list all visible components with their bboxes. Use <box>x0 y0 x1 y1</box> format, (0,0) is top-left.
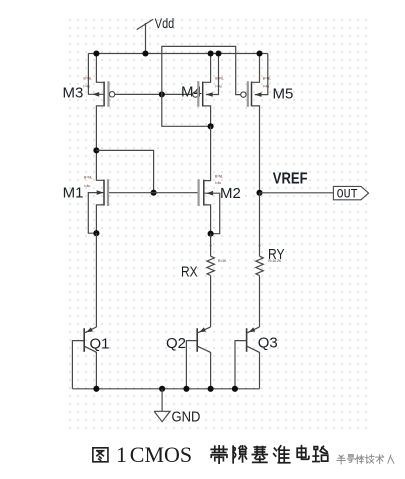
label GND <box>172 409 201 426</box>
transistor M5 drain wire <box>252 106 260 193</box>
junction Q2 base at rail <box>183 386 189 392</box>
caption character 隙 <box>233 446 246 463</box>
transistor M1 channel <box>103 180 105 206</box>
pin dot RY <box>259 245 261 247</box>
resistor RY zigzag <box>256 256 263 275</box>
transistor Q3 base bar <box>246 328 248 352</box>
transistor M2 bulk wire <box>204 191 220 234</box>
label VREF <box>273 171 308 188</box>
svg-text:RY: RY <box>268 246 285 263</box>
svg-text:Q3: Q3 <box>258 335 278 352</box>
caption character 准 <box>274 446 290 463</box>
watermark 半导体技术人 <box>337 455 394 465</box>
junction Q1 collector at rail <box>93 386 99 392</box>
transistor Q3 base wire <box>235 341 247 389</box>
transistor M3 channel <box>103 82 105 107</box>
transistor M1 drain wire <box>96 150 104 180</box>
wire Vdd rail <box>88 53 267 55</box>
wire RX to Q2 emitter <box>210 276 212 327</box>
svg-text:l=4u: l=4u <box>84 84 90 88</box>
transistor Q2 emitter <box>198 327 211 333</box>
transistor M3 gate plate <box>107 81 109 107</box>
svg-text:B=NL: B=NL <box>215 77 224 81</box>
transistor Q3 emitter <box>247 327 259 333</box>
transistor M4 source wire <box>203 54 211 83</box>
junction Q2 collector at rail <box>208 386 214 392</box>
transistor M1 bulk wire <box>88 190 104 233</box>
transistor M1 properties <box>84 176 93 189</box>
label Vdd <box>155 15 174 31</box>
transistor Q2 base bar <box>196 328 198 352</box>
junction Q3 base at rail <box>232 386 238 392</box>
resistor RX zigzag <box>207 256 214 275</box>
transistor M3 drain wire <box>96 106 104 150</box>
junction VREF tap <box>256 190 262 196</box>
transistor M5 properties <box>263 77 272 89</box>
label RX <box>181 264 198 281</box>
transistor Q2 base wire <box>186 341 197 389</box>
svg-text:R=1K: R=1K <box>218 259 227 263</box>
resistor RY property <box>268 259 282 263</box>
wire RY to Q3 emitter <box>259 276 261 327</box>
svg-text:Q2: Q2 <box>166 335 186 352</box>
junction M4 drain node <box>208 123 214 129</box>
transistor M1 source wire <box>96 205 104 233</box>
transistor M4 bulk wire <box>206 54 219 97</box>
svg-text:M2: M2 <box>220 185 241 202</box>
transistor M2 channel <box>203 180 205 206</box>
svg-text:B=NL: B=NL <box>84 176 93 180</box>
transistor Q2 collector <box>198 346 211 389</box>
transistor M4 properties <box>215 77 224 89</box>
transistor M5 gate bubble <box>241 92 246 97</box>
svg-text:RX: RX <box>181 264 198 281</box>
transistor M4 gate bubble <box>193 92 198 97</box>
transistor M5 gate plate <box>247 81 249 107</box>
wire ground rail <box>72 388 259 390</box>
label M1 <box>63 185 84 202</box>
junction M5 source at rail <box>256 50 262 56</box>
transistor M1 gate plate <box>107 179 109 206</box>
label Q2 <box>166 335 186 352</box>
transistor M4 drain wire <box>203 106 211 126</box>
transistor M4 channel <box>202 82 204 107</box>
transistor Q1 base wire <box>72 341 84 389</box>
transistor M4 gate plate <box>197 81 199 107</box>
transistor Q3 collector <box>247 346 260 389</box>
label M2 <box>220 185 241 202</box>
power Vdd symbol <box>137 19 153 53</box>
wire M1 gate to M2 gate <box>109 192 199 194</box>
junction M4 bulk at rail <box>215 50 221 56</box>
wire M4 drain feedback to M5 gate <box>162 46 241 126</box>
junction loop on gate wire <box>151 190 157 196</box>
wire VREF node to RY <box>259 193 261 256</box>
svg-text:B=NL: B=NL <box>215 175 224 179</box>
junction M1 drain node <box>93 147 99 153</box>
transistor M3 properties <box>84 77 93 89</box>
wire M2 source to RX <box>210 234 212 257</box>
label M5 <box>273 86 294 103</box>
port OUT <box>333 186 368 201</box>
svg-text:l=4u: l=4u <box>84 184 90 188</box>
transistor Q1 base bar <box>83 328 85 352</box>
svg-text:1: 1 <box>116 442 127 467</box>
svg-text:Vdd: Vdd <box>155 15 174 31</box>
transistor M2 drain wire <box>204 126 211 180</box>
junction M4 source at rail <box>208 50 214 56</box>
svg-text:M5: M5 <box>273 86 294 103</box>
svg-text:CMOS: CMOS <box>130 442 192 467</box>
svg-text:l=4u: l=4u <box>263 84 269 88</box>
label Q3 <box>258 335 278 352</box>
wire M1 drain to gate loop <box>96 150 153 192</box>
transistor M3 bulk wire <box>88 54 104 97</box>
svg-text:VREF: VREF <box>273 171 308 188</box>
svg-text:M1: M1 <box>63 185 84 202</box>
transistor M5 source wire <box>252 54 260 83</box>
caption character 带 <box>211 446 227 463</box>
label M4 <box>181 84 202 101</box>
svg-text:M3: M3 <box>63 85 84 102</box>
junction GND at rail <box>159 386 165 392</box>
caption character 基 <box>252 447 267 463</box>
transistor Q1 emitter <box>85 327 96 333</box>
label M3 <box>63 85 84 102</box>
svg-text:GND: GND <box>172 409 201 426</box>
transistor M5 bulk wire <box>255 54 268 97</box>
caption character 图 <box>93 448 108 462</box>
transistor M2 source wire <box>204 205 211 234</box>
label RY <box>268 246 285 263</box>
caption character 电 <box>297 446 309 460</box>
label Q1 <box>90 336 110 353</box>
transistor M2 gate plate <box>198 179 200 206</box>
junction gate wire with feedback <box>159 91 165 97</box>
resistor RX property <box>218 259 227 263</box>
pin dot RX <box>210 245 212 247</box>
svg-text:l=4u: l=4u <box>215 84 221 88</box>
junction M2 source bulk <box>208 231 214 237</box>
transistor M5 channel <box>251 82 253 107</box>
svg-text:B=NL: B=NL <box>84 77 93 81</box>
svg-text:B=NL: B=NL <box>263 77 272 81</box>
wire M3 gate to M4 gate <box>115 93 193 95</box>
transistor M3 source wire <box>96 54 104 83</box>
ground symbol <box>154 389 170 422</box>
transistor M2 properties <box>215 175 224 186</box>
caption character 路 <box>313 446 328 461</box>
wire M1 source to Q1 emitter <box>95 233 97 327</box>
junction Vdd at rail <box>142 50 148 56</box>
junction M3 source at rail <box>93 50 99 56</box>
transistor M3 gate bubble <box>109 92 114 97</box>
junction M1 source bulk <box>93 230 99 236</box>
svg-text:Q1: Q1 <box>90 336 110 353</box>
svg-text:OUT: OUT <box>337 187 358 201</box>
wire VREF to OUT <box>260 192 334 194</box>
transistor Q1 collector <box>85 346 97 389</box>
